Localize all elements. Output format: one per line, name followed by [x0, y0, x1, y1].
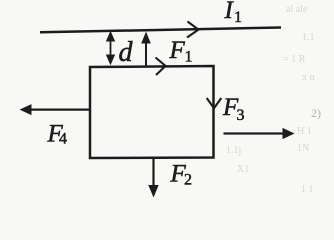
d double arrow	[110, 38, 112, 58]
svg-text:1: 1	[234, 9, 242, 26]
svg-text:F: F	[169, 37, 186, 64]
arrowhead on top edge (current direction)	[156, 58, 166, 76]
svg-text:al ale: al ale	[286, 4, 308, 15]
svg-text:H 1: H 1	[297, 126, 312, 137]
svg-text:3: 3	[237, 107, 245, 124]
svg-text:1N: 1N	[297, 143, 309, 154]
faint bleed-through text	[226, 4, 321, 195]
F2 arrow down	[152, 159, 154, 186]
svg-text:x n: x n	[302, 72, 315, 83]
svg-text:1.1: 1.1	[302, 32, 315, 43]
up arrow (force toward wire)	[145, 42, 147, 67]
svg-text:X1: X1	[237, 164, 249, 175]
svg-text:1.1j: 1.1j	[226, 145, 241, 156]
svg-text:4: 4	[59, 131, 67, 148]
F4 arrow left	[30, 108, 90, 110]
svg-text:2): 2)	[311, 106, 321, 120]
svg-text:2: 2	[184, 172, 192, 189]
svg-text:1: 1	[185, 49, 193, 66]
svg-text:= 1 R: = 1 R	[283, 54, 306, 65]
wire I1	[40, 28, 281, 33]
svg-text:d: d	[119, 37, 134, 68]
wire arrowhead	[187, 22, 199, 38]
svg-text:1 1: 1 1	[301, 184, 314, 195]
arrowhead on right edge pointing down	[207, 98, 222, 108]
loop rectangle	[90, 66, 214, 158]
F3 arrow to the right	[224, 132, 285, 134]
